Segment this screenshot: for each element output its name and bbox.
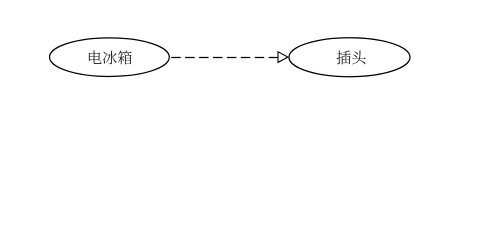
label 电冰箱 [89, 50, 132, 64]
ellipse node: 电冰箱 (refrigerator) [50, 38, 170, 77]
wire: dashed dependency connector [171, 57, 278, 59]
ellipse node: 插头 (plug) [289, 38, 410, 77]
label 插头 [337, 50, 366, 64]
arrowhead: hollow triangle [278, 52, 288, 63]
